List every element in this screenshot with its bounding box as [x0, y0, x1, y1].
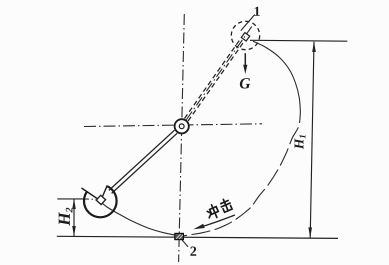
striker square at hammer centre: [96, 195, 105, 204]
impact direction arrow: [202, 215, 235, 227]
pendulum arm solid edge 1: [109, 130, 175, 190]
swing arc lower-left solid segment (specimen to hammer): [101, 202, 180, 236]
leader line to label 2: [182, 240, 188, 247]
H1 top arrowhead: [312, 41, 316, 52]
H2 extension centerline to hammer: [84, 198, 96, 200]
label 2: [190, 247, 196, 256]
label H1: [295, 135, 306, 149]
swing arc dashed segment: [184, 112, 301, 236]
raised pendulum arm centerline (dash-dot): [186, 27, 252, 120]
pendulum arm solid edge 2: [112, 133, 178, 193]
bottom reference line: [57, 236, 338, 238]
weight arrow G shaft: [244, 53, 246, 66]
raised pendulum arm dashed edge 2: [185, 39, 241, 118]
label G: [240, 78, 250, 88]
label 1: [255, 7, 260, 16]
striker square inside position-1 circle: [241, 33, 249, 41]
H1 bottom arrowhead: [308, 227, 312, 238]
weight arrow G head: [243, 65, 247, 74]
horizontal centerline through pivot: [84, 124, 262, 127]
H2 dimension line: [73, 199, 75, 236]
raised pendulum arm dashed edge 1: [188, 42, 244, 121]
specimen block at position 2: [175, 233, 184, 239]
H2 top extension line: [57, 198, 84, 200]
H1 dimension line: [310, 42, 314, 238]
H1 top extension line: [250, 39, 347, 42]
impact label (ji): [219, 197, 233, 212]
pivot bearing: [175, 119, 189, 133]
label H2: [59, 208, 73, 226]
hammer ghost circle at position 1 (dashed): [231, 21, 259, 49]
leader line to label 1: [241, 15, 255, 31]
H2 bottom arrowhead: [72, 226, 76, 236]
impact label (chong): [205, 203, 220, 220]
hammer body circle with notch: [79, 177, 117, 218]
H2 top arrowhead: [72, 199, 76, 209]
swing arc upper solid segment: [253, 41, 300, 112]
vertical centerline through pivot and specimen: [179, 14, 185, 262]
